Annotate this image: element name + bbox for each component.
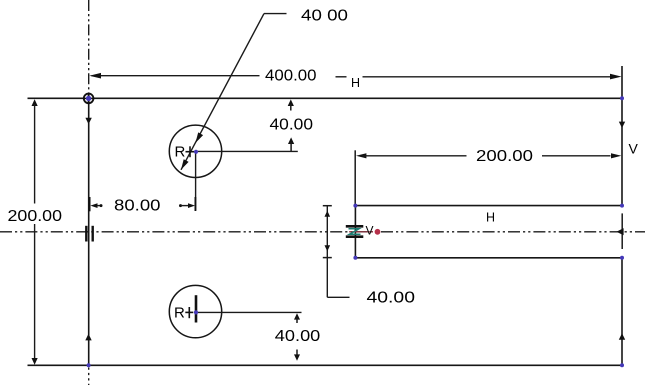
svg-text:200.00: 200.00 (8, 208, 63, 225)
origin marker (83, 93, 93, 103)
dimension 80.00 (90, 197, 196, 215)
svg-text:H: H (486, 210, 495, 224)
dimension 40.00 top right (270, 99, 314, 151)
blue vertex notch bottom left (353, 256, 357, 260)
bottom circle center tick bar (195, 295, 198, 322)
extension below top circle center (195, 151, 197, 210)
rectangle right edge upper segment with dim extension (621, 66, 623, 206)
svg-text:V: V (366, 224, 374, 238)
dimension 40.00 bottom circle (275, 313, 321, 361)
blue vertex notch top right (620, 204, 624, 208)
vertical centerline above rectangle (88, 0, 90, 98)
svg-text:200.00: 200.00 (476, 148, 533, 165)
arrow below origin on left edge (85, 118, 91, 124)
bottom circle center cross (185, 307, 193, 318)
dimension 200.00 left (8, 99, 63, 365)
svg-text:H: H (351, 76, 360, 90)
svg-text:40.00: 40.00 (270, 117, 314, 134)
notch bottom edge (355, 257, 622, 259)
svg-text:R: R (174, 305, 185, 322)
double tick at left edge centerline (86, 226, 92, 242)
dimension 200.00 right (355, 140, 638, 205)
rectangle left edge (88, 98, 90, 365)
arrow on right edge upper (619, 122, 625, 128)
svg-text:R: R (175, 144, 186, 161)
dimension 400.00 (89, 67, 621, 90)
notch top edge (355, 205, 622, 207)
centerline marker at right edge (616, 213, 623, 249)
blue vertex notch bottom right (620, 256, 624, 260)
svg-text:V: V (629, 140, 639, 156)
blue corner vertex bottom left (87, 363, 91, 367)
arrow on left edge above bottom (85, 334, 91, 341)
svg-text:40 00: 40 00 (301, 7, 348, 24)
bottom circle center point (194, 310, 198, 314)
top circle center point (194, 150, 198, 154)
top circle center cross (186, 146, 195, 157)
red point (375, 229, 381, 235)
dimension 40.00 notch (323, 206, 415, 307)
vertical centerline below rectangle (88, 368, 90, 386)
horizontal centerline (0, 231, 645, 233)
arrow on right edge lower (619, 333, 625, 340)
rectangle top edge (28, 97, 623, 99)
blue corner vertex top right (620, 96, 624, 100)
blue vertex notch top left (353, 204, 357, 208)
line from top circle center to right (196, 150, 298, 152)
circle bottom (169, 285, 221, 337)
notch symmetric constraint bars (346, 226, 364, 236)
svg-text:80.00: 80.00 (114, 198, 161, 215)
red segment on centerline (349, 231, 373, 233)
blue corner vertex bottom right (620, 363, 624, 367)
svg-text:40.00: 40.00 (367, 289, 416, 306)
leader for diameter 40 00 (181, 7, 348, 169)
line from bottom circle center to right (196, 311, 302, 313)
teal symmetry glyph (349, 229, 361, 235)
notch left edge (354, 206, 356, 258)
svg-text:40.00: 40.00 (275, 328, 321, 345)
circle top (169, 125, 221, 177)
rectangle right edge lower segment (621, 258, 623, 366)
svg-text:400.00: 400.00 (265, 67, 317, 84)
rectangle bottom edge (28, 364, 623, 366)
